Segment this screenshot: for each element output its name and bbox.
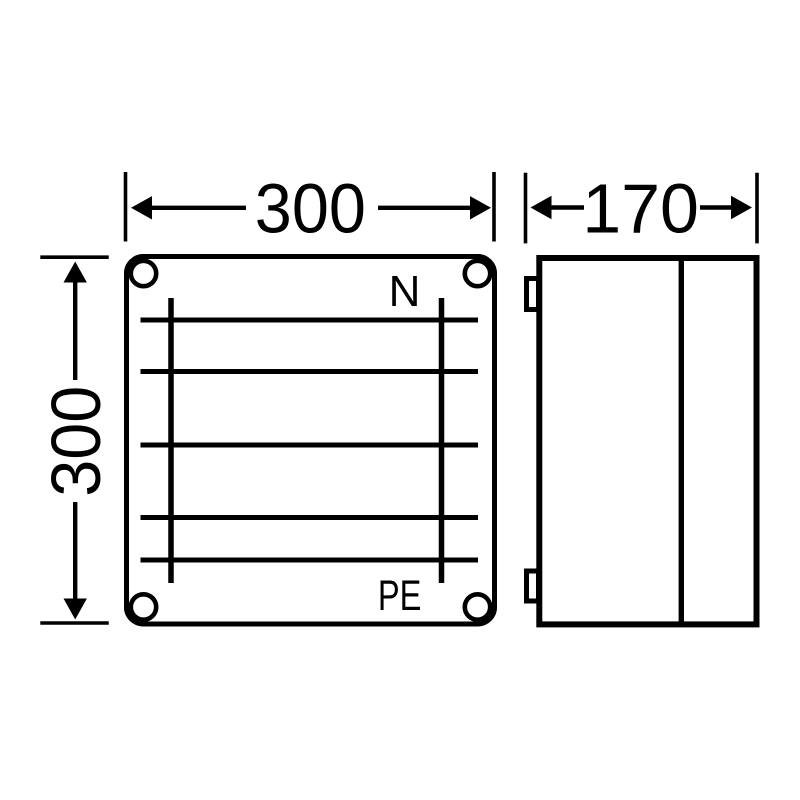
side view cover parting line [679,258,684,624]
busbar support right [439,298,445,583]
width dimension 300: right shaft [378,206,472,210]
width dimension 300: right extension line [492,172,496,242]
height dimension 300: top extension line [40,255,108,259]
width dimension 300: left extension line [124,172,128,242]
side view top hinge clip [527,279,539,310]
height dimension 300: bottom extension line [40,621,108,625]
depth dimension 170: right shaft [700,205,732,209]
busbar N [141,318,479,323]
svg-text:N: N [389,267,421,316]
depth dimension 170: right extension line [755,173,759,244]
side view enclosure outline [539,258,756,624]
corner fillet bottom-right [478,607,493,622]
mounting hole top-left [131,261,156,286]
busbar L2 [141,443,479,448]
front view enclosure outline [127,257,495,625]
width dimension 300: left shaft [150,206,246,210]
svg-text:300: 300 [37,386,115,497]
depth dimension 170: right arrowhead [731,196,752,219]
side view bottom hinge clip [527,571,539,601]
mounting hole bottom-left [131,594,156,619]
mounting hole top-right [465,261,490,286]
busbar L3 [141,515,479,520]
height dimension 300: top arrowhead [64,262,87,283]
corner fillet top-right [478,259,493,274]
depth dimension 170: left shaft [551,205,584,209]
height dimension 300: bottom arrowhead [64,599,87,620]
width dimension 300: left arrowhead [131,196,152,219]
svg-text:170: 170 [582,170,699,248]
svg-text:300: 300 [255,170,366,248]
mounting hole bottom-right [465,594,490,619]
busbar L1 [141,369,479,374]
depth dimension 170: left arrowhead [531,196,552,219]
height dimension 300: upper shaft [73,281,77,380]
width dimension 300: right arrowhead [470,196,491,219]
height dimension 300: lower shaft [73,502,77,599]
svg-text:PE: PE [378,572,422,620]
busbar PE [141,558,479,563]
corner fillet bottom-left [129,607,144,622]
depth dimension 170: left extension line [524,173,528,244]
busbar support left [168,298,174,583]
corner fillet top-left (solid join between outline and hole) [129,259,144,274]
